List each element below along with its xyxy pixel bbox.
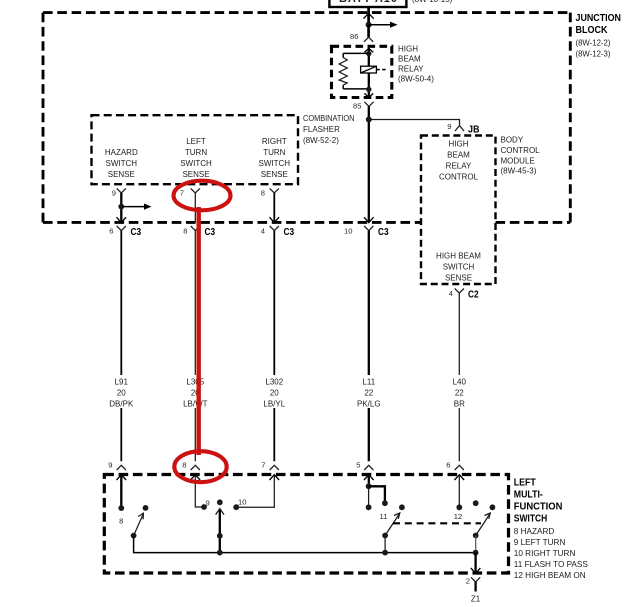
left multi-function switch dashed box [104, 475, 508, 574]
svg-text:L91: L91 [115, 377, 129, 386]
arrowhead relay wire into C3 [364, 217, 374, 222]
wire pin9 to contact 8 [120, 476, 122, 508]
svg-text:COMBINATION: COMBINATION [303, 114, 355, 123]
svg-text:DB/PK: DB/PK [109, 399, 134, 408]
svg-text:CONTROL: CONTROL [439, 172, 479, 181]
svg-text:(8W-50-4): (8W-50-4) [398, 74, 434, 83]
switch pin 6 [446, 461, 464, 470]
svg-text:L40: L40 [453, 377, 467, 386]
mechanical linkage [393, 522, 481, 524]
svg-text:HAZARD: HAZARD [105, 148, 138, 157]
connector half flasher pin 7 [191, 188, 200, 193]
combination flasher dashed box [92, 115, 299, 184]
svg-text:11 FLASH TO PASS: 11 FLASH TO PASS [514, 560, 589, 569]
arrowhead pin6 into switch [455, 475, 465, 480]
node pin5 [366, 483, 372, 489]
svg-text:6: 6 [109, 227, 113, 236]
svg-text:22: 22 [364, 388, 373, 397]
high beam arm [473, 504, 495, 538]
relay main wire lower [368, 73, 370, 97]
svg-text:BODY: BODY [501, 136, 524, 145]
svg-text:20: 20 [270, 388, 279, 397]
relay main wire upper [368, 48, 370, 66]
svg-text:22: 22 [455, 388, 464, 397]
junction block dashed border [43, 13, 570, 223]
arrowhead pin9 into switch [117, 475, 127, 480]
svg-text:12: 12 [454, 512, 462, 521]
svg-text:85: 85 [353, 102, 361, 111]
svg-text:5: 5 [356, 461, 360, 470]
switch name label [514, 478, 563, 525]
svg-text:LEFT: LEFT [186, 137, 206, 146]
svg-text:JUNCTION: JUNCTION [576, 13, 622, 24]
wire L11 [368, 231, 370, 462]
wire L302 [273, 231, 275, 462]
svg-text:SENSE: SENSE [108, 170, 135, 179]
arrowhead hazard wire into C3 [117, 217, 127, 222]
right turn switch sense label [259, 137, 291, 179]
rail node pin 2 [473, 550, 479, 556]
high beam switch sense label [436, 251, 481, 282]
label L11 22 PK/LG [352, 375, 386, 408]
label L302 20 LB/YL [257, 375, 292, 408]
node hazard branch [118, 204, 124, 210]
svg-text:8: 8 [119, 517, 123, 526]
wire pin6 to contact 12 [458, 476, 460, 507]
contact 9 [201, 504, 207, 510]
svg-text:SWITCH: SWITCH [514, 514, 548, 525]
svg-text:9: 9 [447, 122, 451, 131]
wire arm 12 pivot to rail [475, 536, 477, 553]
arrowhead out of relay bottom [364, 93, 373, 97]
dashed stub from coil to box edge [376, 69, 387, 71]
svg-text:C3: C3 [378, 227, 389, 238]
svg-text:MULTI-: MULTI- [514, 490, 543, 501]
svg-text:BR: BR [454, 399, 465, 408]
branch arrow to right [369, 24, 391, 26]
svg-text:TURN: TURN [263, 148, 285, 157]
red annotation ellipse bottom (switch pin 8) [174, 451, 226, 482]
arrowhead pin5 into switch [364, 475, 374, 480]
wire battery to junction block [367, 7, 370, 25]
contact 12 [456, 504, 462, 510]
svg-text:JB: JB [468, 124, 480, 135]
node relay bottom [366, 87, 371, 92]
svg-text:FLASHER: FLASHER [303, 125, 340, 134]
svg-text:SWITCH: SWITCH [259, 159, 291, 168]
resistor (relay suppression) [339, 53, 369, 89]
svg-text:6: 6 [446, 461, 450, 470]
svg-text:(8W-52-2): (8W-52-2) [303, 136, 339, 145]
hazard switch arm [131, 505, 149, 538]
svg-text:86: 86 [350, 32, 358, 41]
contact left of 11 [366, 504, 372, 510]
svg-text:8: 8 [261, 189, 265, 198]
wire pin8 to contact 9 [195, 476, 204, 507]
svg-text:10 RIGHT TURN: 10 RIGHT TURN [514, 549, 576, 558]
wire L40 [458, 293, 460, 461]
svg-text:9: 9 [206, 498, 210, 507]
svg-text:20: 20 [117, 388, 126, 397]
svg-text:9 LEFT TURN: 9 LEFT TURN [514, 538, 566, 547]
connector half pin 2 [471, 577, 480, 582]
svg-text:(8W-45-3): (8W-45-3) [501, 166, 537, 175]
wire pin5 to node [368, 476, 370, 486]
hazard switch sense label [105, 148, 138, 179]
svg-text:(8W-10-15): (8W-10-15) [412, 0, 453, 4]
svg-text:C3: C3 [205, 227, 216, 238]
svg-text:RIGHT: RIGHT [262, 137, 287, 146]
label L91 20 DB/PK [106, 375, 137, 408]
svg-text:SWITCH: SWITCH [180, 159, 212, 168]
svg-text:LB/WT: LB/WT [183, 399, 208, 408]
svg-text:BATT A10: BATT A10 [339, 0, 397, 5]
wire node L to contact 11 [369, 486, 385, 503]
svg-text:9: 9 [108, 461, 112, 470]
svg-text:SENSE: SENSE [445, 273, 472, 282]
battery feed box (cut off at top) [329, 0, 406, 7]
high beam relay dashed box [332, 46, 392, 97]
red annotation wire trace [196, 207, 200, 455]
contact 8 [118, 505, 124, 511]
wire L305 [194, 231, 196, 462]
arrowhead pin7 into switch [270, 475, 280, 480]
svg-text:SENSE: SENSE [182, 170, 209, 179]
svg-text:BEAM: BEAM [398, 55, 421, 64]
svg-text:HIGH BEAM: HIGH BEAM [436, 251, 481, 260]
svg-text:(8W-12-3): (8W-12-3) [576, 49, 611, 58]
connector half flasher pin 8 [270, 188, 279, 193]
svg-text:TURN: TURN [185, 148, 207, 157]
left turn switch sense label [180, 137, 212, 179]
svg-text:4: 4 [449, 289, 453, 298]
svg-text:Z1: Z1 [471, 595, 481, 604]
combination flasher label [303, 114, 355, 145]
arrowhead into junction block top [364, 13, 374, 19]
svg-text:C2: C2 [468, 289, 479, 300]
node to BCM branch [366, 117, 372, 123]
label L40 22 BR [446, 375, 473, 408]
svg-text:11: 11 [380, 512, 388, 521]
wire arm 11 pivot to rail [384, 536, 386, 553]
svg-text:(8W-12-2): (8W-12-2) [576, 39, 611, 48]
svg-text:C3: C3 [131, 227, 142, 238]
C3 pin 8 [183, 226, 215, 238]
C2 pin 4 [449, 289, 479, 301]
switch pin 9 [108, 461, 126, 470]
svg-text:FUNCTION: FUNCTION [514, 502, 563, 513]
wire 85 down to C3 [368, 106, 370, 222]
connector half at 86 [364, 37, 373, 42]
svg-text:9: 9 [112, 189, 116, 198]
svg-text:7: 7 [180, 189, 184, 198]
switch pin 7 [261, 461, 279, 470]
switch legend [514, 527, 589, 580]
wire rail to pin 2 [474, 553, 476, 573]
high beam relay label [398, 45, 434, 84]
wire arm pivot to rail [134, 536, 476, 553]
hazard wire pin9 to node [120, 193, 122, 222]
svg-text:RELAY: RELAY [446, 161, 472, 170]
red annotation ellipse top (left turn sense pin 7) [174, 181, 231, 211]
svg-text:8: 8 [182, 461, 186, 470]
wire to BCM pin 9 [369, 120, 460, 126]
wire contact 10 to pin 7 [236, 476, 274, 507]
svg-text:L305: L305 [186, 377, 204, 386]
svg-text:LEFT: LEFT [514, 478, 537, 489]
left turn wire pin7 to C3 [194, 193, 196, 222]
C3 pin 10 [344, 226, 389, 238]
svg-text:BLOCK: BLOCK [576, 25, 608, 36]
C3 pin 6 [109, 226, 141, 238]
contact 10 [233, 504, 239, 510]
switch pin 5 [356, 461, 373, 470]
svg-text:4: 4 [261, 227, 265, 236]
svg-text:8: 8 [183, 227, 187, 236]
rail node 11 [382, 550, 388, 556]
contact 11 [382, 500, 388, 506]
svg-text:10: 10 [344, 227, 352, 236]
svg-text:LB/YL: LB/YL [263, 399, 285, 408]
label L305 20 LB/WT [178, 375, 213, 408]
arrowhead pin8 into switch [191, 475, 201, 480]
wire L91 [120, 231, 122, 462]
arrowhead right turn into C3 [270, 217, 280, 222]
body control module dashed box [421, 136, 496, 285]
connector half flasher pin 9 [117, 188, 126, 193]
flash-to-pass arm [382, 504, 405, 538]
svg-text:L302: L302 [265, 377, 283, 386]
svg-text:12 HIGH BEAM ON: 12 HIGH BEAM ON [514, 571, 586, 580]
left turn arm (vertical) [216, 499, 224, 555]
svg-text:2: 2 [466, 576, 470, 585]
svg-text:HIGH: HIGH [398, 45, 418, 54]
svg-text:L11: L11 [362, 377, 375, 386]
svg-text:8 HAZARD: 8 HAZARD [514, 527, 555, 536]
arrowhead into relay top [364, 48, 373, 52]
arrowhead out of switch bottom [471, 568, 481, 573]
node at 368.6,24.7 [366, 22, 372, 28]
wire node to pin 86 [367, 25, 370, 38]
connector half at 85 [364, 102, 373, 107]
free contact high beam [473, 500, 479, 506]
svg-text:PK/LG: PK/LG [357, 399, 381, 408]
relay coil box with diagonal [361, 66, 377, 73]
svg-text:CONTROL: CONTROL [501, 146, 541, 155]
node relay top [366, 51, 371, 56]
wire pin 2 down [474, 582, 476, 592]
right turn wire pin8 to C3 [273, 193, 275, 222]
switch pin 8 [182, 461, 200, 470]
junction block label [576, 13, 622, 58]
svg-text:MODULE: MODULE [501, 157, 535, 166]
body control module label [501, 136, 541, 176]
hazard branch arrow right [121, 206, 144, 208]
svg-text:SWITCH: SWITCH [106, 159, 138, 168]
connector half JB [455, 126, 464, 131]
svg-text:RELAY: RELAY [398, 64, 424, 73]
wire node down to contact [368, 486, 370, 507]
svg-text:C3: C3 [284, 227, 295, 238]
svg-text:BEAM: BEAM [447, 150, 470, 159]
svg-text:HIGH: HIGH [449, 139, 469, 148]
high beam relay control label [439, 139, 479, 181]
svg-text:SWITCH: SWITCH [443, 262, 475, 271]
svg-text:7: 7 [261, 461, 265, 470]
C3 pin 4 [261, 226, 295, 238]
svg-text:10: 10 [238, 497, 246, 506]
svg-text:SENSE: SENSE [261, 170, 288, 179]
